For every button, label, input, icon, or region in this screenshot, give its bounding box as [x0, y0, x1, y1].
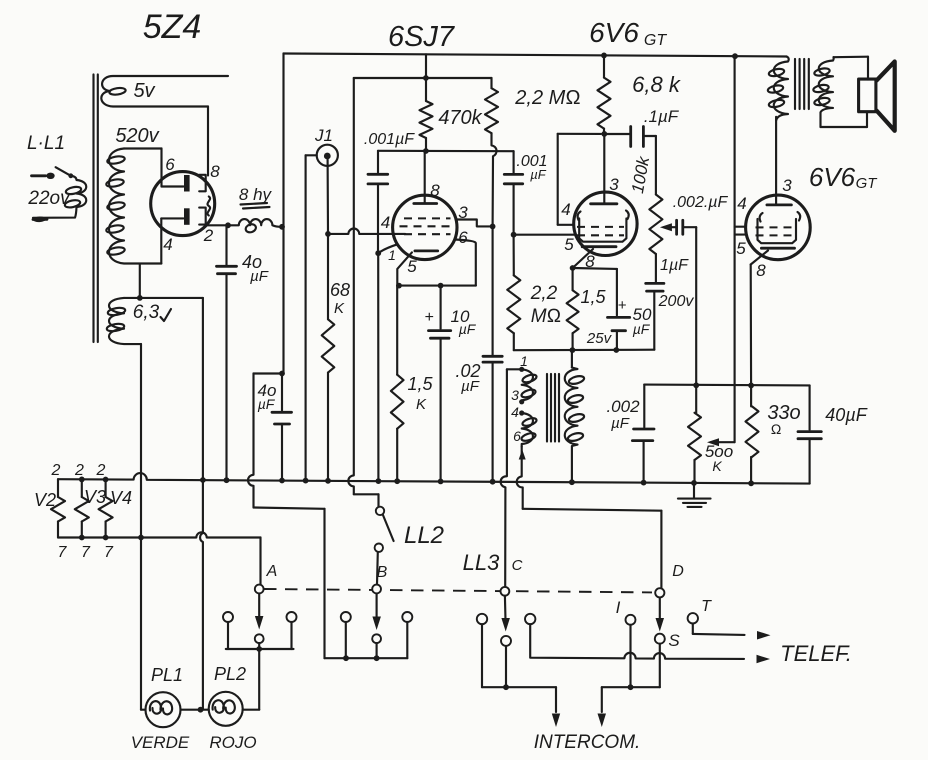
6V6 plate	[591, 202, 617, 205]
bias node line	[514, 349, 655, 352]
label 10uF	[424, 307, 476, 337]
T1 6.3V winding	[106, 298, 203, 344]
junction screen node	[490, 224, 496, 230]
svg-text:B: B	[377, 564, 388, 581]
junction 6.3V return pin7	[138, 535, 144, 541]
svg-text:3: 3	[609, 175, 619, 194]
junction B bar centre	[374, 655, 380, 661]
6SJ7 pin 1 lead	[378, 244, 397, 253]
T1 5V winding	[101, 76, 228, 107]
resistor 330	[746, 385, 759, 483]
switch C left drop	[482, 624, 556, 687]
6V6 pin label 5	[564, 235, 574, 254]
label 1.5	[580, 287, 606, 307]
svg-text:+: +	[618, 297, 627, 314]
AC plug lower terminal	[33, 216, 47, 222]
labels 2 2 2	[51, 462, 106, 479]
label ROJO	[209, 733, 256, 752]
5Z4 pin 4 lead	[161, 218, 183, 263]
6SJ7 pin label 4	[381, 213, 390, 232]
label 40uF second	[258, 381, 277, 412]
wire T to telef	[693, 624, 745, 635]
6V6 pin label 3	[609, 175, 619, 194]
junction 40uF-2 tap	[279, 371, 285, 377]
label 6.8k	[632, 72, 681, 97]
contact B post left	[341, 612, 351, 622]
svg-text:6: 6	[513, 428, 521, 444]
wire filter jog	[248, 374, 282, 508]
junction cap1 bus	[376, 478, 382, 484]
contact D wiper	[655, 588, 664, 597]
junction 50uF bottom	[613, 347, 619, 353]
svg-text:6,3: 6,3	[133, 302, 160, 323]
label 5V	[133, 80, 155, 102]
svg-text:INTERCOM.: INTERCOM.	[534, 732, 641, 753]
wire S down	[602, 644, 660, 688]
6V6 beam plates	[578, 211, 629, 221]
svg-text:68: 68	[330, 280, 350, 300]
junction 330 bus	[748, 480, 754, 486]
resistor 1.5	[567, 268, 579, 350]
5Z4 cathode upper	[199, 175, 206, 192]
wire LL2 to B	[376, 552, 379, 585]
lamp PL1 leads	[141, 709, 209, 711]
switch A bar	[226, 648, 294, 650]
6V6 pin 3 lead	[603, 134, 605, 204]
capacitor .002uF second	[632, 385, 654, 483]
6V6 cathode bar	[582, 245, 616, 248]
lamp PL1	[146, 692, 181, 727]
switch LL1 blade	[56, 167, 74, 178]
contact C wiper	[501, 587, 510, 596]
label LL3	[463, 550, 500, 575]
svg-text:3: 3	[511, 387, 519, 403]
svg-text:V3: V3	[84, 487, 106, 507]
potentiometer 100k	[649, 195, 662, 284]
label 470k	[438, 107, 482, 129]
100k wiper arrow	[660, 223, 677, 231]
junction .002-2 bus	[641, 480, 647, 486]
svg-text:.1µF: .1µF	[644, 107, 680, 126]
5Z4 pin label 4	[163, 235, 172, 254]
6V6-2 plate	[767, 203, 792, 206]
6V6-2 pin label 8	[756, 261, 766, 280]
pin6 line arrowhead	[519, 450, 526, 460]
intercom arrow 1	[552, 687, 560, 727]
6SJ7 pin label 5	[407, 257, 417, 276]
svg-text:.002.µF: .002.µF	[673, 194, 729, 211]
junction V3 pin7	[79, 535, 85, 541]
label LL2	[404, 522, 444, 549]
output transformer primary	[767, 57, 789, 121]
interstage secondary	[565, 350, 585, 482]
wire 6.3V return to pilot lamps	[140, 344, 142, 710]
svg-text:5Z4: 5Z4	[143, 8, 202, 46]
svg-text:+: +	[424, 309, 433, 326]
contact S	[655, 634, 665, 644]
telef arrow upper	[757, 631, 771, 640]
label V2	[34, 490, 56, 510]
wire interstage pin1 to C	[501, 369, 522, 587]
6V6-2 grids	[756, 227, 798, 235]
6V6-2 pin label 3	[782, 176, 792, 195]
label 2.2M first	[514, 87, 580, 109]
junction 10uF bus	[438, 479, 444, 485]
label .002uF second	[606, 397, 640, 432]
junction cathode right	[438, 283, 444, 289]
svg-text:K: K	[712, 458, 722, 474]
svg-text:8: 8	[430, 181, 440, 200]
junction 40uF-2 bus	[279, 478, 285, 484]
svg-text:5: 5	[407, 257, 417, 276]
heater bus pin2	[58, 473, 810, 484]
6V6-2 beam plates	[760, 212, 801, 222]
label INTERCOM	[534, 732, 641, 753]
labels 7 7 7	[58, 544, 115, 561]
label S	[668, 631, 680, 650]
svg-text:D: D	[672, 563, 684, 580]
label J1	[314, 126, 333, 145]
svg-text:µF: µF	[611, 415, 630, 432]
junction 500k top	[693, 382, 699, 388]
6V6-2 pin 5 stub	[735, 234, 747, 236]
AC plug upper terminal	[32, 173, 55, 179]
choke 8hy	[228, 219, 282, 234]
6SJ7 pin 5 lead	[397, 252, 412, 285]
capacitor 10uF	[429, 286, 451, 482]
svg-text:5: 5	[736, 239, 746, 258]
svg-text:8: 8	[756, 261, 766, 280]
junction 6.3V top	[137, 295, 143, 301]
5Z4 pin label 8	[210, 162, 220, 181]
intercom arrow 2	[598, 687, 607, 727]
6SJ7 cathode	[415, 249, 438, 252]
svg-text:4: 4	[737, 194, 746, 213]
svg-text:2,2: 2,2	[530, 283, 558, 304]
svg-text:µF: µF	[530, 167, 546, 182]
svg-text:A: A	[266, 563, 278, 580]
switch A centre drop	[258, 643, 260, 649]
svg-text:8 hy: 8 hy	[239, 185, 273, 204]
capacitor .02uF	[483, 226, 502, 481]
5Z4 pin label 6	[165, 155, 175, 174]
6V6-2 cathode box	[758, 219, 797, 243]
6V6 grid wire	[514, 234, 576, 236]
svg-text:µF: µF	[461, 378, 480, 395]
resistor 1.5k	[391, 286, 404, 482]
svg-text:7: 7	[58, 544, 68, 561]
label .001uF second	[516, 153, 547, 182]
grid wire to pin4	[328, 228, 405, 233]
6V6-2 pin 3 lead	[775, 117, 777, 205]
tube 6V6 first envelope	[574, 192, 637, 255]
potentiometer 500k	[688, 385, 701, 483]
svg-text:K: K	[334, 300, 345, 317]
heater bus pin7	[58, 532, 261, 537]
label I	[616, 598, 621, 617]
jack J1	[317, 145, 338, 166]
label LL1	[27, 133, 65, 154]
label .002uF tone	[673, 194, 729, 211]
lamp PL2	[209, 692, 243, 726]
svg-text:GT: GT	[644, 32, 667, 49]
6SJ7 plate	[414, 202, 437, 205]
svg-text:520v: 520v	[115, 125, 159, 147]
J1 shell wire	[306, 155, 317, 480]
contact T	[688, 613, 698, 623]
interstage pin 1 terminal	[519, 367, 524, 372]
wire C right to telef	[530, 624, 744, 659]
contact B wiper	[372, 585, 381, 594]
wire A bar to PL2	[243, 649, 260, 710]
svg-text:T: T	[701, 598, 712, 615]
5Z4 anode plate upper	[184, 175, 190, 192]
svg-text:2: 2	[203, 226, 214, 245]
label 40uF input	[242, 252, 269, 285]
6SJ7 cathode bottom wire	[397, 285, 476, 287]
junction 1.5k bus	[394, 478, 400, 484]
svg-text:7: 7	[104, 544, 114, 561]
heater V2	[51, 479, 65, 537]
switch C centre drop	[505, 646, 507, 687]
svg-text:2: 2	[51, 462, 61, 479]
label 25v	[586, 330, 613, 347]
junction rectifier output	[225, 222, 231, 228]
switch B arrow	[372, 593, 381, 630]
switch B post drops	[346, 622, 408, 658]
contact B post right	[402, 612, 412, 622]
svg-text:6V6: 6V6	[589, 17, 639, 48]
label .02uF	[455, 361, 480, 395]
contact C post right	[525, 614, 535, 624]
svg-text:6: 6	[458, 228, 468, 247]
svg-text:.001µF: .001µF	[364, 131, 415, 148]
svg-text:2: 2	[74, 462, 84, 479]
junction 6V6 cathode	[570, 265, 576, 271]
svg-text:V4: V4	[110, 488, 132, 508]
label .001uF first	[364, 131, 415, 148]
svg-text:C: C	[512, 557, 523, 574]
6V6 cathode box	[579, 219, 626, 242]
tube 6V6 second label	[809, 162, 878, 192]
telef arrow lower	[757, 655, 771, 663]
label 2.2M second	[530, 283, 561, 327]
dashed gang line LL3	[264, 589, 652, 592]
svg-text:MΩ: MΩ	[531, 306, 561, 327]
label 40uF output	[825, 405, 867, 425]
label V4	[110, 488, 132, 508]
label 1.5k	[407, 374, 433, 413]
junction interstage sec bus	[569, 479, 575, 485]
interstage pin labels	[511, 353, 528, 444]
wire I down	[629, 625, 631, 687]
OT secondary	[813, 57, 834, 112]
junction 40uF bus	[224, 477, 230, 483]
svg-text:1µF: 1µF	[660, 257, 689, 274]
switch A post drops	[228, 622, 292, 649]
contact B centre	[372, 634, 381, 643]
resistor 6.8k	[598, 53, 611, 134]
5Z4 pin 8 lead	[207, 107, 209, 176]
6SJ7 pin 6 wire	[455, 240, 476, 286]
tube 6V6 first label	[589, 17, 667, 49]
switch B bar	[325, 657, 408, 659]
bias top line	[354, 77, 492, 79]
svg-text:40µF: 40µF	[825, 405, 867, 425]
interstage pin 4	[519, 410, 524, 415]
svg-text:3: 3	[782, 176, 792, 195]
wire cap1 to bus	[377, 253, 379, 481]
svg-text:100k: 100k	[628, 154, 653, 195]
junction 68k bus	[325, 478, 331, 484]
junction 470k bottom	[423, 148, 429, 154]
svg-text:J1: J1	[314, 126, 333, 145]
label T	[701, 598, 712, 615]
resistor 2.2M second	[507, 235, 520, 351]
6V6 screen rect	[558, 134, 601, 225]
label .1uF coupling	[644, 107, 680, 126]
contact LL2 lower	[375, 544, 383, 552]
J1 tip wire	[327, 160, 330, 234]
interstage primary lower	[521, 413, 538, 447]
5Z4 filament	[208, 197, 211, 216]
6V6 pin label 8	[585, 252, 595, 271]
svg-text:200v: 200v	[658, 293, 695, 310]
label 68k	[330, 280, 350, 317]
svg-text:µF: µF	[633, 321, 651, 337]
svg-text:Ω: Ω	[771, 421, 782, 437]
node line 385	[644, 384, 809, 387]
transformer T1 primary winding	[33, 176, 86, 218]
label 50uF	[618, 297, 652, 337]
capacitor 40uF second filter	[272, 374, 292, 481]
switch A arrow	[255, 593, 264, 629]
6SJ7 pin label 1	[388, 247, 396, 263]
svg-text:ROJO: ROJO	[209, 733, 256, 752]
6SJ7 pin 8 lead	[424, 151, 426, 203]
svg-text:K: K	[416, 396, 427, 413]
speaker driver	[859, 79, 876, 112]
speaker leads	[821, 57, 869, 127]
capacitor .1uF coupling	[604, 127, 656, 195]
wire rail tap	[425, 54, 427, 78]
label TELEF	[780, 641, 852, 666]
capacitor .002uF tone	[677, 220, 697, 385]
6V6-2 pin 8 lead	[751, 251, 768, 386]
svg-text:µF: µF	[258, 396, 276, 412]
6SJ7 pin label 6	[458, 228, 468, 247]
svg-text:VERDE: VERDE	[131, 733, 190, 752]
label 330	[767, 402, 800, 437]
wire bias line down	[348, 78, 378, 507]
wire interstage pin6 to D	[517, 447, 662, 589]
junction pin1 node	[375, 250, 381, 256]
label 220v	[27, 188, 71, 209]
6SJ7 pin 3 step	[456, 220, 493, 227]
contact I	[626, 615, 636, 625]
junction .02 bus	[490, 479, 496, 485]
label 500k	[705, 442, 733, 474]
wire heater line past 7-bus	[200, 480, 203, 710]
label B	[377, 564, 388, 581]
6V6-2 cathode bar	[761, 247, 794, 250]
5Z4 pin 6 lead	[162, 149, 184, 187]
resistor 2.2M first	[485, 78, 498, 226]
heater V4	[99, 477, 113, 538]
junction lamps midpoint	[198, 707, 204, 713]
wire B+ riser	[282, 54, 284, 374]
svg-text:µF: µF	[459, 321, 477, 337]
6SJ7 pin label 8	[430, 181, 440, 200]
junction 1.5 bottom	[570, 347, 576, 353]
label A	[266, 563, 278, 580]
svg-text:1,5: 1,5	[580, 287, 606, 307]
6V6-2 pin 4 stub	[735, 226, 746, 228]
svg-text:6: 6	[165, 155, 175, 174]
capacitor 40uF output	[798, 385, 821, 483]
tube 6V6 second envelope	[746, 195, 811, 260]
label V3	[84, 487, 106, 507]
junction 330 top	[748, 383, 754, 389]
svg-text:PL2: PL2	[214, 664, 246, 684]
contact C centre	[501, 636, 511, 646]
capacitor 50uF	[573, 268, 630, 350]
svg-text:2,2 MΩ: 2,2 MΩ	[514, 87, 580, 109]
svg-text:25v: 25v	[586, 330, 613, 347]
junction cathode left	[396, 283, 402, 289]
5Z4 cathode lower	[199, 208, 206, 225]
label 1uF	[660, 257, 689, 274]
6V6-2 pin label 5	[736, 239, 746, 258]
svg-text:8: 8	[585, 252, 595, 271]
wire bus tap to B bar	[254, 508, 325, 659]
switch D arrow	[656, 597, 665, 631]
junction C centre join	[503, 684, 509, 690]
wire 6.3V hot to heater bus	[200, 298, 206, 483]
6V6-2 pin label 4	[737, 194, 746, 213]
junction rail screen tap	[732, 53, 738, 59]
junction 6V6 plate node	[601, 131, 607, 137]
6SJ7 pin label 3	[458, 203, 468, 222]
5Z4 pin label 2	[203, 226, 214, 245]
svg-text:6,8 k: 6,8 k	[632, 72, 681, 97]
junction A bar	[256, 646, 262, 652]
heater V3	[75, 477, 89, 538]
svg-text:7: 7	[81, 544, 91, 561]
contact A centre	[255, 634, 264, 643]
ground symbol	[678, 484, 711, 507]
wire HV bottom tap down	[139, 264, 141, 298]
svg-text:V2: V2	[34, 490, 56, 510]
svg-text:TELEF.: TELEF.	[780, 641, 852, 666]
contact C post left	[477, 614, 487, 624]
tube 6SJ7 envelope	[393, 195, 457, 259]
svg-text:470k: 470k	[438, 107, 482, 129]
junction choke output	[279, 224, 285, 230]
capacitor 1uF 200V	[646, 283, 664, 349]
junction I join	[628, 684, 634, 690]
switch B centre drop	[376, 643, 378, 658]
junction grid node	[325, 231, 331, 237]
interstage core	[547, 374, 559, 442]
svg-text:4: 4	[511, 404, 519, 420]
OT core	[795, 59, 809, 109]
label C	[512, 557, 523, 574]
svg-text:1,5: 1,5	[407, 374, 433, 394]
contact A post left	[223, 612, 233, 622]
svg-text:6SJ7: 6SJ7	[388, 21, 456, 53]
tube 6SJ7 label	[388, 21, 456, 53]
